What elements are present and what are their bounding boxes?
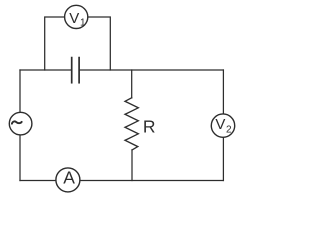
wire top main left (node to capacitor) (20, 69, 71, 71)
svg-text:V: V (69, 10, 79, 27)
wire left vertical lower (source to bottom corner) (19, 135, 21, 181)
ammeter A circle (56, 168, 80, 192)
ac source circle (9, 112, 32, 135)
svg-text:V: V (215, 116, 225, 133)
voltmeter V2 circle (211, 114, 234, 137)
wire V1 right lead (88, 17, 111, 70)
svg-text:1: 1 (80, 18, 86, 29)
capacitor C right plate (78, 58, 80, 83)
resistor R zigzag (125, 98, 138, 150)
svg-text:A: A (63, 167, 75, 187)
svg-text:2: 2 (226, 124, 232, 135)
capacitor C left plate (71, 58, 73, 83)
ac source sine symbol (12, 121, 22, 123)
wire bottom left (corner to ammeter) (20, 180, 56, 182)
wire right vertical lower (V2 to bottom corner) (222, 137, 224, 180)
voltmeter V1 circle (65, 5, 88, 28)
wire left vertical upper (corner to source) (19, 70, 21, 112)
wire resistor bottom lead (131, 150, 133, 181)
wire right vertical upper (corner to V2) (222, 70, 224, 114)
svg-text:R: R (143, 116, 156, 136)
wire bottom right (ammeter to right corner) (80, 180, 224, 182)
wire top main right (capacitor to right corner) (80, 69, 224, 71)
wire resistor top lead (131, 70, 133, 98)
wire V1 left lead (45, 17, 65, 70)
